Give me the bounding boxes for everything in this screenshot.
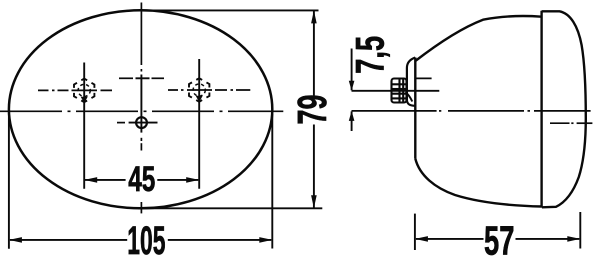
svg-text:45: 45 [128, 161, 155, 199]
svg-text:57: 57 [484, 219, 514, 256]
svg-text:7,5: 7,5 [348, 36, 392, 74]
svg-text:79: 79 [290, 95, 335, 125]
svg-text:105: 105 [127, 217, 165, 256]
